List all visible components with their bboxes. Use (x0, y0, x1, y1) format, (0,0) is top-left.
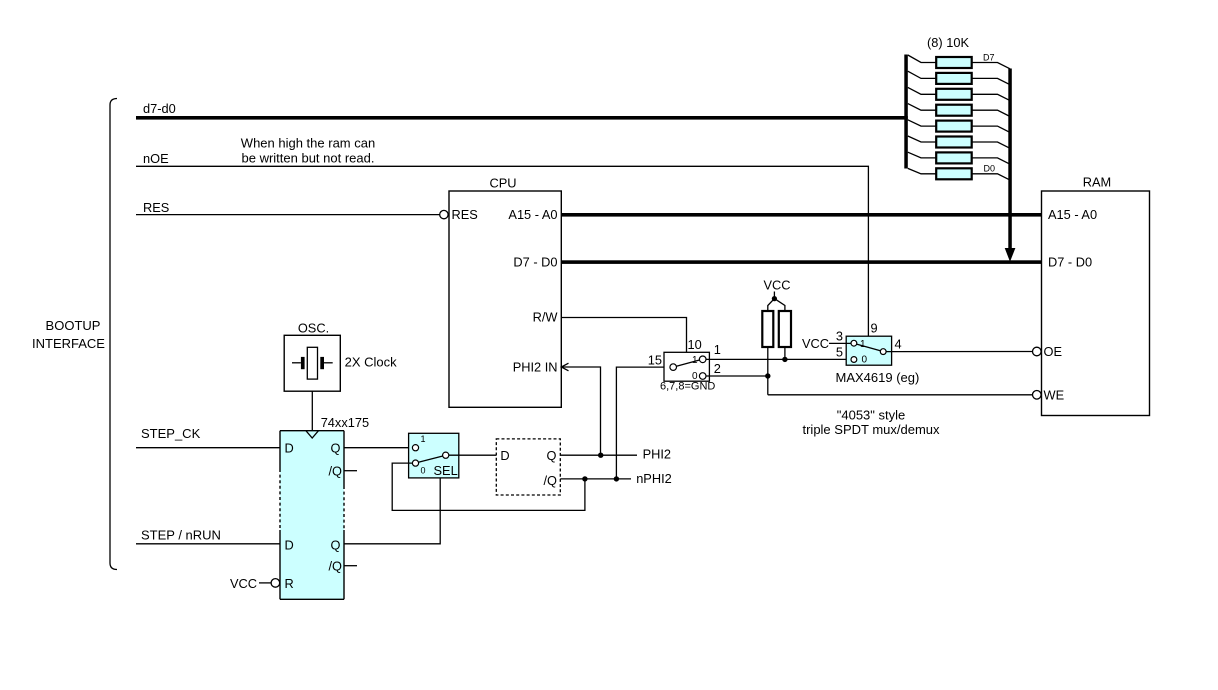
svg-text:Q: Q (331, 538, 341, 553)
RAM block (1042, 191, 1150, 416)
wire RES (136, 214, 440, 216)
MAX4619 throw 1 contact (851, 340, 857, 346)
bracket BOOTUP INTERFACE (110, 99, 117, 570)
svg-text:nOE: nOE (143, 151, 169, 166)
wire left bus of resistor array (904, 55, 908, 169)
svg-text:2X Clock: 2X Clock (345, 355, 398, 370)
svg-text:D7 - D0: D7 - D0 (513, 255, 557, 270)
wire feedback /Q to SEL throw 0 (392, 463, 585, 510)
svg-text:STEP_CK: STEP_CK (141, 426, 201, 441)
junction pullup left / pin2 line (765, 373, 770, 378)
wire nOE to MAX4619 pin 9 (136, 166, 868, 336)
svg-text:/Q: /Q (328, 464, 342, 479)
svg-text:3: 3 (836, 329, 843, 344)
MAX4619 lever (857, 344, 881, 351)
svg-text:"4053" style: "4053" style (837, 408, 906, 423)
wire /Q to nPHI2 (560, 478, 631, 480)
svg-text:RAM: RAM (1083, 175, 1111, 190)
svg-text:5: 5 (836, 345, 843, 360)
svg-text:R: R (285, 576, 294, 591)
wire PHI2 IN from PHI2 node (arrow into CPU) (561, 367, 600, 455)
S1 throw 1 contact (699, 356, 706, 363)
RAM pin WE bubble (1033, 391, 1042, 400)
arrow into D7-D0 bus (1005, 248, 1016, 262)
svg-text:9: 9 (871, 321, 878, 336)
svg-text:D: D (500, 448, 509, 463)
CPU block (449, 191, 561, 407)
S1 pole contact (pin 15) (670, 364, 677, 371)
svg-text:RES: RES (452, 207, 478, 222)
svg-text:D7 - D0: D7 - D0 (1048, 255, 1092, 270)
SEL throw 1 contact (412, 445, 418, 451)
flip-flop D (divider) dashed block (496, 439, 560, 495)
wire OSC to 74xx175 clock (311, 391, 313, 431)
SEL common contact (443, 452, 449, 458)
resistor R4 (10K) (908, 104, 1010, 117)
resistor R7 (10K) (908, 152, 1010, 164)
svg-text:BOOTUP: BOOTUP (46, 318, 101, 333)
resistor R6 (10K) (908, 136, 1010, 148)
svg-text:CPU: CPU (489, 176, 516, 191)
junction nPHI2 to switch pole (614, 476, 619, 481)
wire D7-D0 bus CPU to RAM (561, 260, 1041, 264)
svg-text:0: 0 (862, 355, 868, 366)
resistor R1 (10K) (908, 55, 1010, 69)
svg-text:6,7,8=GND: 6,7,8=GND (660, 381, 715, 393)
svg-text:2: 2 (714, 361, 721, 376)
clock arrowhead into 74xx175 (306, 431, 319, 438)
svg-text:d7-d0: d7-d0 (143, 101, 176, 116)
svg-text:STEP / nRUN: STEP / nRUN (141, 528, 221, 543)
oscillator OSC block (284, 335, 340, 391)
junction nPHI2 feedback (582, 476, 587, 481)
wire VCC to left pullup (768, 299, 775, 311)
svg-text:PHI2: PHI2 (643, 447, 671, 462)
wire SEL common to D (449, 454, 497, 456)
MAX4619 throw 0 contact (851, 357, 857, 363)
wire S1 pin2 to pullup left (706, 375, 768, 377)
note: ram write comment (241, 136, 375, 166)
wire Q bottom to SEL select (344, 478, 440, 544)
wire R/W to switch pin 10 (561, 318, 686, 353)
svg-text:OE: OE (1044, 344, 1063, 359)
switch S1 block (664, 352, 709, 381)
svg-text:triple SPDT mux/demux: triple SPDT mux/demux (802, 422, 940, 437)
switch SEL block (409, 433, 459, 478)
resistor R8 (10K) (908, 168, 1010, 180)
74xx175 pin R bubble (271, 579, 280, 588)
wire STEP_CK (136, 447, 280, 449)
svg-text:A15 - A0: A15 - A0 (508, 207, 557, 222)
svg-text:VCC: VCC (802, 336, 829, 351)
wire VCC to right pullup (774, 299, 785, 311)
svg-text:SEL: SEL (434, 463, 458, 478)
RAM pin OE bubble (1033, 347, 1042, 356)
mux MAX4619 block (846, 336, 891, 365)
CPU RES pin bubble (440, 210, 448, 218)
junction pullup right / pin5 line (782, 357, 787, 362)
junction PHI2/CPU (598, 453, 603, 458)
svg-text:WE: WE (1044, 388, 1065, 403)
svg-text:74xx175: 74xx175 (321, 415, 369, 430)
wire VCC stub (773, 292, 775, 299)
S1 lever (676, 360, 699, 366)
note: 4053 style (802, 408, 940, 438)
svg-text:R/W: R/W (533, 310, 559, 325)
resistor R2 (10K) (908, 71, 1010, 85)
svg-text:nPHI2: nPHI2 (636, 471, 672, 486)
stub /Q bottom (344, 565, 357, 567)
wire WE line to RAM (768, 394, 1033, 396)
wire S1 pin1 to MAX4619 pin 5 (706, 358, 851, 360)
svg-text:Q: Q (331, 441, 341, 456)
svg-text:1: 1 (692, 355, 698, 366)
wire d7-d0 bus (136, 116, 908, 120)
wire left pullup down to WE line (767, 347, 769, 395)
wire right pullup down to pin5 line (784, 347, 786, 359)
wire nPHI2 to switch pin 15 (616, 367, 670, 479)
svg-text:PHI2 IN: PHI2 IN (513, 360, 558, 375)
svg-text:1: 1 (714, 342, 721, 357)
svg-text:INTERFACE: INTERFACE (32, 336, 105, 351)
wire VCC to R bubble (259, 582, 271, 584)
junction VCC split (772, 296, 777, 301)
label BOOTUP INTERFACE (32, 318, 105, 351)
flip-flop U 74xx175 block (280, 431, 344, 600)
wire A15-A0 bus CPU to RAM (561, 213, 1041, 217)
svg-text:D: D (285, 441, 294, 456)
svg-text:RES: RES (143, 200, 169, 215)
svg-text:Q: Q (547, 448, 557, 463)
svg-text:1: 1 (860, 339, 866, 350)
svg-text:D0: D0 (984, 164, 996, 174)
svg-text:OSC.: OSC. (298, 321, 329, 336)
svg-text:/Q: /Q (543, 473, 557, 488)
wire VCC to pin 3 (829, 342, 851, 344)
MAX4619 common contact (880, 349, 886, 355)
svg-text:be written but not read.: be written but not read. (242, 151, 375, 166)
svg-text:When high the ram can: When high the ram can (241, 136, 375, 151)
svg-text:D: D (285, 538, 294, 553)
svg-text:15: 15 (648, 353, 662, 368)
svg-text:VCC: VCC (763, 278, 790, 293)
svg-text:0: 0 (421, 466, 426, 476)
svg-text:(8) 10K: (8) 10K (927, 35, 969, 50)
crystal symbol (292, 347, 333, 379)
resistor R5 (10K) (908, 120, 1010, 133)
resistor pullup left (762, 311, 773, 347)
svg-text:MAX4619 (eg): MAX4619 (eg) (836, 370, 920, 385)
S1 throw 0 contact (699, 373, 706, 380)
wire MAX4619 pin 4 to RAM OE (886, 351, 1032, 353)
SEL throw 0 contact (412, 460, 418, 466)
wire STEP / nRUN (136, 543, 280, 545)
resistor pullup right (779, 311, 791, 347)
svg-text:1: 1 (421, 434, 426, 444)
svg-text:/Q: /Q (328, 559, 342, 574)
wire Q to PHI2 (560, 454, 637, 456)
svg-text:10: 10 (688, 337, 702, 352)
resistor R3 (10K) (908, 87, 1010, 100)
svg-text:D7: D7 (983, 53, 995, 63)
svg-text:VCC: VCC (230, 576, 257, 591)
svg-text:A15 - A0: A15 - A0 (1048, 207, 1097, 222)
wire right bus of resistor array (1008, 69, 1012, 249)
stub /Q top (344, 470, 357, 472)
svg-text:4: 4 (895, 337, 902, 352)
wire Q top to SEL throw 1 (344, 447, 413, 449)
SEL lever (418, 456, 442, 462)
